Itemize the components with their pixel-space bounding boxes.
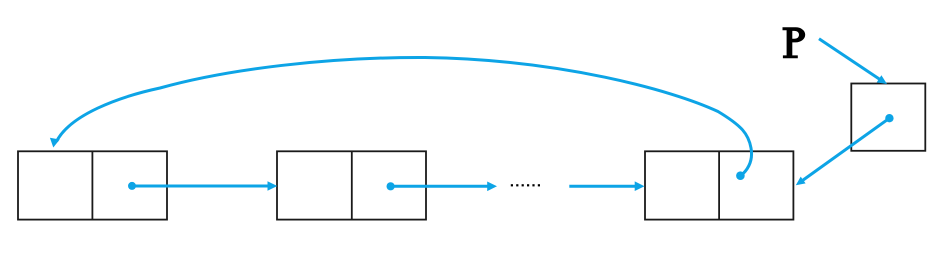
arrow node1 to node2 <box>132 181 277 191</box>
ellipsis dots <box>511 184 540 186</box>
arrow pointer box to node3 <box>796 118 890 185</box>
arrow P label to pointer box <box>819 39 887 84</box>
pointer box dot <box>885 114 893 122</box>
arrow node2 to ellipsis <box>391 182 497 192</box>
node 3 box <box>645 151 793 219</box>
node 2 box <box>277 151 426 219</box>
node 1 pointer dot <box>128 182 136 190</box>
label P <box>783 27 806 58</box>
pointer box P <box>851 84 925 151</box>
node 1 box <box>18 151 167 219</box>
node 3 pointer dot <box>736 171 745 180</box>
node 2 pointer dot <box>387 182 395 190</box>
wire circular link arc node3 back to node1 <box>57 57 752 176</box>
arrow ellipsis to node3 <box>569 181 644 191</box>
arrowhead of circular link at node1 <box>50 138 60 148</box>
